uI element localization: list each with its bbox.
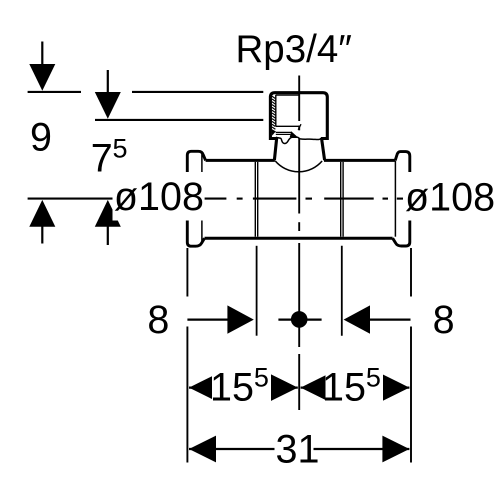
svg-text:15: 15 — [322, 365, 366, 409]
svg-text:15: 15 — [210, 365, 254, 409]
svg-text:9: 9 — [30, 116, 52, 160]
svg-text:5: 5 — [254, 363, 269, 393]
svg-text:5: 5 — [113, 134, 128, 164]
svg-text:ø108: ø108 — [405, 176, 495, 220]
svg-text:8: 8 — [147, 298, 169, 342]
svg-text:Rp3/4″: Rp3/4″ — [236, 28, 352, 71]
svg-text:5: 5 — [366, 363, 381, 393]
svg-text:8: 8 — [433, 298, 455, 342]
svg-text:7: 7 — [91, 137, 113, 181]
svg-text:31: 31 — [276, 428, 320, 472]
svg-text:ø108: ø108 — [114, 175, 204, 219]
